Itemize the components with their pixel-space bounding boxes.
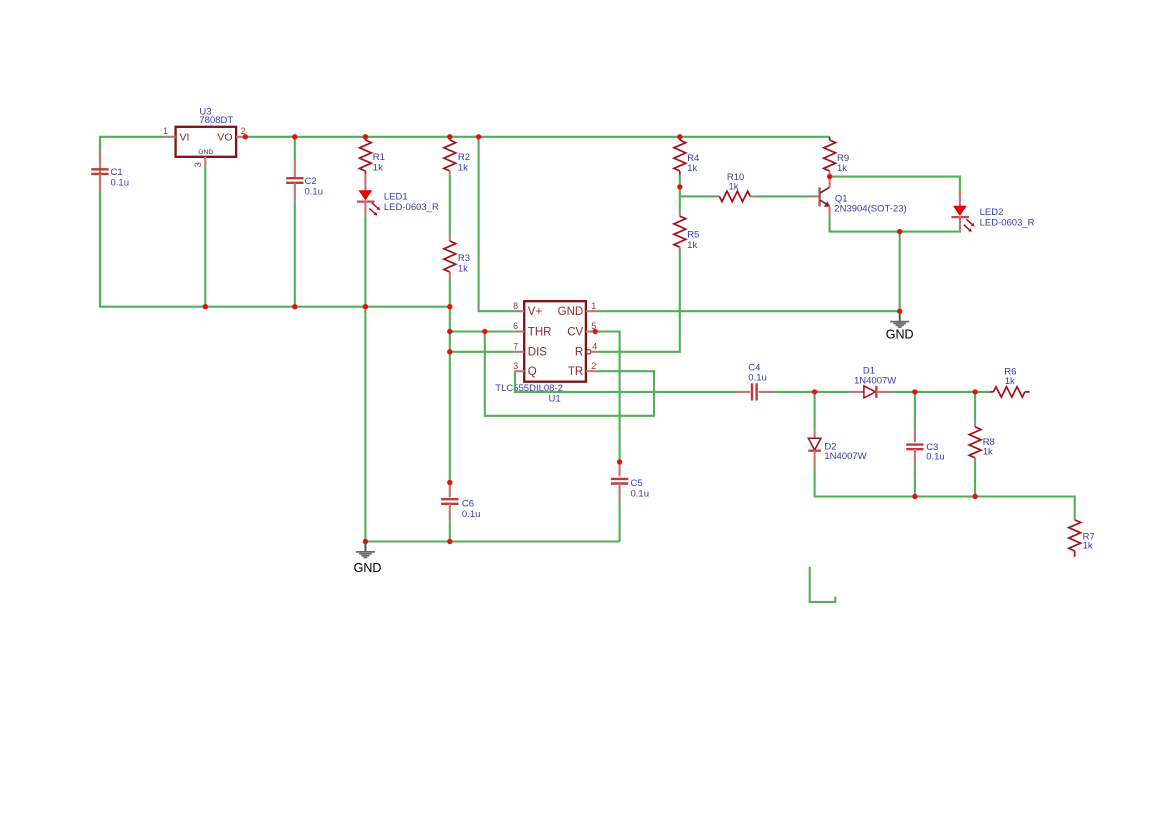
wire R pin to R5	[595, 252, 680, 352]
svg-text:0.1u: 0.1u	[926, 452, 945, 463]
label R9	[837, 153, 849, 174]
svg-text:3: 3	[193, 162, 203, 167]
svg-text:6: 6	[513, 321, 518, 331]
svg-text:1k: 1k	[458, 163, 468, 174]
wire R3 down to C6	[449, 279, 451, 483]
svg-text:0.1u: 0.1u	[305, 187, 324, 198]
svg-text:GND: GND	[354, 561, 382, 575]
svg-text:7: 7	[513, 341, 518, 351]
capacitor C1	[91, 137, 108, 307]
svg-text:0.1u: 0.1u	[631, 489, 650, 500]
U1 pin 1 stub	[586, 301, 596, 311]
junction R8 branch	[972, 389, 977, 394]
label Q1	[834, 193, 906, 214]
junction C3 branch	[912, 389, 917, 394]
label GND bottom	[354, 561, 382, 575]
U3 pin 1 VI stub	[163, 126, 176, 137]
wire C6 down	[449, 521, 451, 541]
svg-text:GND: GND	[198, 149, 213, 156]
wire V+ branch	[479, 137, 515, 311]
svg-text:8: 8	[513, 301, 518, 311]
voltage regulator U3 box	[176, 127, 237, 157]
resistor R10	[715, 191, 755, 201]
svg-text:0.1u: 0.1u	[462, 509, 481, 520]
svg-text:1k: 1k	[373, 163, 383, 174]
junction R8 bottom	[972, 494, 977, 499]
U1 pin name CV	[567, 326, 583, 338]
label U3	[199, 107, 211, 118]
svg-text:R3: R3	[458, 253, 470, 264]
svg-text:R: R	[575, 347, 583, 359]
junction emitter gnd	[897, 229, 902, 234]
wire R2 to R3	[449, 176, 451, 238]
wire R4 to junction	[679, 175, 681, 187]
label R2	[458, 152, 470, 174]
svg-text:1k: 1k	[1005, 376, 1015, 387]
junction C6 bottom	[447, 539, 452, 544]
svg-text:2N3904(SOT-23): 2N3904(SOT-23)	[834, 203, 906, 214]
junction R9 bottom	[827, 174, 832, 179]
label LED1	[384, 192, 439, 214]
wire R10 left	[680, 195, 715, 197]
svg-text:C2: C2	[305, 176, 317, 187]
U1 pin name V+	[528, 306, 543, 318]
LED LED2	[951, 191, 969, 230]
junction R3-rail	[447, 304, 452, 309]
ground symbol bottom	[356, 544, 375, 558]
junction R2 top	[447, 134, 452, 139]
resistor R7	[1069, 517, 1081, 557]
junction C2 bottom	[292, 304, 297, 309]
svg-text:R2: R2	[458, 152, 470, 163]
wire D2 down + bottom rail3	[815, 467, 1075, 517]
label U1	[549, 394, 561, 405]
svg-text:GND: GND	[558, 306, 584, 318]
junction U3 gnd-rail	[203, 304, 208, 309]
wire D1 to R6	[893, 391, 990, 393]
svg-text:GND: GND	[886, 327, 914, 341]
wire C2 bottom	[294, 202, 296, 306]
svg-text:C1: C1	[111, 167, 123, 178]
capacitor C4	[735, 383, 774, 400]
U1 pin name DIS	[528, 347, 548, 359]
junction rail2 gnd	[363, 539, 368, 544]
svg-text:7808DT: 7808DT	[199, 115, 233, 126]
wire Q out	[515, 371, 735, 392]
label 7808DT	[199, 115, 233, 126]
label GND right	[886, 327, 914, 341]
svg-text:CV: CV	[567, 326, 583, 338]
wire top rail VIN from C1 to U3.VI	[100, 136, 165, 138]
label C5	[631, 478, 650, 500]
junction C3 bottom	[912, 494, 917, 499]
junction CV	[593, 329, 598, 334]
U3 pin name GND	[198, 149, 213, 156]
U1 pin 6 stub	[513, 321, 524, 331]
transistor Q1	[820, 177, 831, 217]
junction R4-R5	[677, 184, 682, 189]
junction THR-loop	[482, 329, 487, 334]
wire bottom GND rail	[99, 306, 450, 308]
label R8	[983, 437, 995, 458]
resistor R6	[990, 387, 1030, 397]
junction C6 top	[447, 480, 452, 485]
U3 pin 2 VO stub	[236, 126, 246, 137]
svg-text:1k: 1k	[687, 240, 697, 251]
capacitor C6	[441, 483, 458, 522]
resistor R1	[360, 137, 372, 174]
svg-text:C6: C6	[462, 499, 474, 510]
svg-text:LED1: LED1	[384, 192, 408, 203]
label R6	[1004, 367, 1016, 388]
wire gnd node vertical	[899, 232, 901, 312]
label D1	[854, 366, 896, 387]
U1 pin name GND	[558, 306, 584, 318]
U1 pin name R	[575, 347, 583, 359]
svg-text:1N4007W: 1N4007W	[854, 376, 896, 387]
LED LED1	[357, 190, 375, 216]
LED1 light arrows	[369, 203, 380, 216]
svg-text:THR: THR	[528, 326, 552, 338]
svg-text:U1: U1	[549, 394, 561, 405]
wire TR loop	[485, 332, 654, 416]
label C2	[305, 176, 324, 198]
svg-text:1N4007W: 1N4007W	[824, 451, 866, 462]
resistor R9	[824, 137, 836, 177]
svg-text:VO: VO	[217, 131, 232, 143]
svg-text:2: 2	[591, 361, 596, 371]
label R3	[458, 253, 470, 275]
wire R9 to LED2 top	[830, 177, 960, 193]
wire THR	[450, 330, 515, 332]
svg-text:1k: 1k	[1083, 541, 1093, 552]
wire R8 down	[974, 462, 976, 497]
diode D1	[850, 386, 893, 398]
label C6	[462, 499, 481, 521]
label TLC555DIL08-2	[495, 383, 563, 394]
resistor R5	[674, 212, 686, 251]
U1 pin name Q	[528, 366, 537, 378]
wire C2 top	[294, 137, 296, 161]
label LED2	[980, 207, 1035, 229]
wire Q1 emitter down	[829, 217, 831, 233]
svg-text:LED-0603_R: LED-0603_R	[384, 202, 439, 213]
label C3	[926, 442, 945, 463]
svg-text:VI: VI	[180, 131, 190, 143]
junction C5 top	[617, 459, 622, 464]
wire top rail 8V from U3.VO to R9	[245, 136, 829, 138]
resistor R8	[969, 422, 981, 462]
wire U3 GND down	[204, 167, 206, 307]
wire D2 top	[814, 392, 816, 431]
svg-text:DIS: DIS	[528, 347, 548, 359]
label D2	[824, 442, 866, 463]
label R4	[687, 153, 699, 174]
junction C2 top	[292, 134, 297, 139]
label R5	[687, 230, 699, 252]
svg-text:1k: 1k	[687, 163, 697, 174]
svg-text:4: 4	[592, 341, 597, 351]
wire C4 to D1	[774, 391, 849, 393]
svg-text:1k: 1k	[983, 447, 993, 458]
label C1	[111, 167, 130, 189]
ic U1 TLC555 box	[524, 301, 586, 382]
wire R1 to LED1 anode	[364, 174, 366, 191]
U1 pin 5 stub	[586, 321, 596, 331]
svg-text:0.1u: 0.1u	[748, 373, 767, 384]
wire LED1col to rail2	[364, 307, 366, 542]
svg-text:TR: TR	[568, 366, 583, 378]
junction R1 top	[363, 134, 368, 139]
wire C3 down	[914, 466, 916, 496]
junction R4 top	[677, 134, 682, 139]
svg-text:LED-0603_R: LED-0603_R	[980, 218, 1035, 229]
wire dangling stub	[810, 567, 836, 602]
wire LED1 cathode down	[364, 216, 366, 307]
svg-text:1k: 1k	[458, 264, 468, 275]
U1 pin 2 stub	[586, 361, 596, 371]
capacitor C5	[611, 462, 628, 500]
resistor R4	[674, 137, 686, 175]
wire DIS	[450, 351, 515, 353]
junction V+ branch	[476, 134, 481, 139]
svg-text:C5: C5	[631, 478, 643, 489]
resistor R2	[444, 137, 456, 176]
junction THR-left	[447, 329, 452, 334]
ground symbol right	[890, 313, 909, 327]
svg-text:3: 3	[513, 361, 518, 371]
U3 pin 3 GND stub	[193, 157, 205, 168]
svg-text:R5: R5	[687, 230, 699, 241]
junction LED1 bottom	[363, 304, 368, 309]
wire CV to C5	[595, 332, 619, 462]
U1 pin 3 stub	[513, 361, 524, 371]
U3 pin name VI	[180, 131, 190, 143]
junction gnd node	[897, 309, 902, 314]
svg-text:1: 1	[591, 301, 596, 311]
wire C5 down	[619, 500, 621, 542]
svg-text:R1: R1	[373, 152, 385, 163]
capacitor C3	[906, 429, 923, 467]
U1 pin name TR	[568, 366, 583, 378]
U1 pin 8 stub	[513, 301, 524, 311]
svg-text:LED2: LED2	[980, 207, 1004, 218]
svg-text:1: 1	[163, 126, 168, 136]
label R7	[1083, 532, 1095, 552]
junction D2 branch	[812, 389, 817, 394]
svg-text:Q: Q	[528, 366, 537, 378]
wire LED2 bottom	[830, 230, 960, 231]
wire bottom rail 2	[365, 540, 619, 542]
wire left vertical C1 branch	[99, 136, 101, 307]
resistor R3	[444, 237, 456, 278]
LED2 light arrows	[964, 219, 975, 232]
U1 pin 7 stub	[513, 341, 524, 351]
label C4	[748, 363, 767, 384]
wire junction to R5	[679, 187, 681, 212]
label R10	[727, 172, 744, 193]
svg-text:1k: 1k	[837, 163, 847, 174]
wire R8 top	[974, 392, 976, 422]
U1 pin name THR	[528, 326, 552, 338]
svg-text:0.1u: 0.1u	[111, 178, 130, 189]
wire U1 GND to right	[595, 310, 900, 312]
U1 pin 4 stub bubble	[586, 341, 597, 354]
wire R10 to Q1 base	[755, 195, 819, 197]
diode D2	[808, 431, 821, 468]
junction VO	[243, 134, 248, 139]
svg-text:V+: V+	[528, 306, 543, 318]
svg-text:1k: 1k	[729, 182, 739, 193]
wire C3 top	[914, 392, 916, 429]
capacitor C2	[286, 160, 303, 203]
label R1	[373, 152, 385, 174]
U3 pin name VO	[217, 131, 232, 143]
junction DIS	[447, 349, 452, 354]
